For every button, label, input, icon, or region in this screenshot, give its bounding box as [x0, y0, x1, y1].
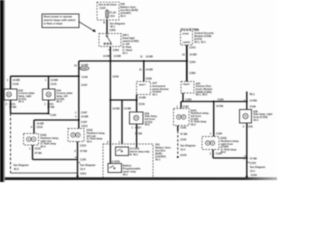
svg-text:14 BR: 14 BR — [139, 95, 146, 99]
wire inside BJB — [110, 144, 136, 164]
svg-text:See Diagram: See Diagram — [250, 165, 266, 169]
svg-text:C280: C280 — [185, 97, 192, 101]
svg-text:C140: C140 — [82, 75, 89, 79]
wire horizontal to license lamps — [11, 75, 79, 77]
svg-text:14 BR: 14 BR — [51, 78, 58, 82]
label SW-1 text — [122, 33, 139, 55]
svg-text:14 BN: 14 BN — [250, 98, 257, 102]
wire below E342 to ground chain — [210, 150, 247, 159]
wire below E341 ground chain — [177, 126, 197, 159]
label F08 BJB text — [120, 2, 138, 18]
svg-text:B: B — [103, 20, 105, 24]
wire license right drop — [7, 76, 20, 89]
svg-text:C155: C155 — [250, 161, 257, 165]
svg-text:C216: C216 — [139, 102, 146, 106]
svg-text:13-4: 13-4 — [180, 147, 186, 151]
wire ground chain center — [74, 142, 96, 177]
svg-text:14 BR: 14 BR — [124, 106, 131, 110]
fuse box F08 battery junction box (dashed) — [97, 2, 119, 20]
svg-text:14 BR: 14 BR — [146, 67, 153, 71]
wire GEM out / front lamp feed — [181, 93, 248, 109]
wire branch to BJB relay — [119, 100, 132, 144]
module A47 (dashed) — [137, 81, 169, 96]
wire branch to left rear lamp — [31, 120, 79, 134]
svg-text:14 BR: 14 BR — [13, 78, 20, 82]
svg-text:See Diagram: See Diagram — [13, 163, 29, 167]
svg-text:40-1: 40-1 — [122, 51, 128, 55]
headlight switch SW-1 (dashed) — [99, 34, 121, 47]
svg-text:C210: C210 — [80, 143, 87, 147]
svg-text:13-4: 13-4 — [80, 167, 86, 171]
svg-text:C140: C140 — [13, 82, 20, 86]
svg-text:40-1: 40-1 — [152, 92, 158, 96]
svg-text:40-2: 40-2 — [87, 139, 93, 143]
svg-text:14 BR: 14 BR — [189, 53, 196, 57]
lamp E38 side lamp right front — [240, 109, 273, 123]
lamp E34 license plate left — [43, 88, 74, 103]
svg-text:C184: C184 — [216, 132, 223, 136]
node branch y100 — [109, 99, 137, 101]
svg-text:C210: C210 — [35, 147, 42, 151]
wire license ground tie — [11, 113, 57, 118]
wire below E34 — [44, 100, 55, 114]
svg-text:C182: C182 — [180, 126, 187, 130]
svg-text:C125: C125 — [99, 6, 106, 10]
svg-text:C447: C447 — [81, 111, 88, 115]
border bar bottom — [5, 177, 277, 180]
svg-text:57 BK: 57 BK — [180, 132, 187, 136]
BJB lower box (dashed) — [103, 144, 153, 179]
LCM module A18 (dashed) — [181, 27, 215, 45]
node junction license feed — [78, 75, 88, 87]
svg-text:57 BK: 57 BK — [135, 131, 142, 135]
svg-text:C182: C182 — [183, 104, 190, 108]
svg-text:See Diagram: See Diagram — [180, 143, 196, 147]
svg-text:40-1: 40-1 — [110, 24, 116, 28]
svg-text:14 BR: 14 BR — [103, 54, 110, 58]
svg-text:C240: C240 — [113, 74, 120, 78]
wire below E36 to BJB — [132, 124, 143, 144]
svg-text:B(+): B(+) — [250, 92, 255, 96]
svg-text:40-4: 40-4 — [120, 14, 126, 18]
svg-text:40-2: 40-2 — [145, 123, 151, 127]
svg-text:VPWR: VPWR — [182, 34, 189, 36]
svg-text:14 BR: 14 BR — [114, 54, 121, 58]
wire fuse to switch — [103, 20, 126, 34]
svg-text:C156: C156 — [250, 105, 257, 109]
lamp E342 park/turn right front (dashed) — [202, 136, 239, 154]
svg-text:C115: C115 — [135, 126, 142, 130]
svg-text:See Diagram: See Diagram — [80, 163, 96, 167]
svg-text:14 BR: 14 BR — [112, 106, 119, 110]
svg-text:40-1, 40-2: 40-1, 40-2 — [196, 93, 208, 97]
lamp E33 license plate right — [4, 88, 35, 103]
svg-text:C262: C262 — [113, 48, 120, 52]
svg-text:Direct power to operate: Direct power to operate — [44, 15, 73, 19]
svg-text:VBATT: VBATT — [139, 83, 147, 86]
svg-text:40-4: 40-4 — [56, 100, 62, 104]
wire right front lamp feed — [210, 102, 224, 137]
lamp E341 park/turn left front (dashed) — [174, 104, 210, 126]
lamp E342 park/turn left rear (dashed) — [68, 128, 105, 143]
svg-text:C210: C210 — [37, 125, 44, 129]
node junction rear lamp branch — [75, 111, 88, 128]
svg-text:40-2: 40-2 — [253, 118, 259, 122]
svg-text:C184: C184 — [216, 152, 223, 156]
note box — [42, 14, 79, 28]
wire box A to side lamp — [137, 95, 146, 113]
svg-text:C228: C228 — [146, 76, 153, 80]
svg-text:VBATT: VBATT — [183, 83, 191, 86]
svg-text:C184: C184 — [217, 97, 224, 101]
svg-text:C262: C262 — [109, 28, 116, 32]
border bar left — [0, 0, 5, 182]
lamp E36 side lamp left front — [130, 111, 158, 126]
svg-text:40-1, 43-1: 40-1, 43-1 — [194, 40, 206, 44]
lamp E343 park/turn right rear (dashed) — [24, 133, 60, 148]
svg-text:exterior lamps with switch: exterior lamps with switch — [44, 18, 76, 22]
svg-text:C156: C156 — [247, 124, 254, 128]
svg-text:40-3: 40-3 — [14, 167, 20, 171]
ground G104 — [246, 176, 248, 178]
label BJB text right — [155, 143, 171, 162]
svg-text:13-4: 13-4 — [250, 169, 256, 173]
svg-text:57 BK: 57 BK — [250, 156, 257, 160]
svg-text:14 BN: 14 BN — [216, 104, 223, 108]
svg-text:40-4: 40-4 — [18, 100, 24, 104]
svg-text:C280: C280 — [189, 71, 196, 75]
svg-text:3 C250: 3 C250 — [112, 159, 121, 163]
wire below E33 — [6, 100, 17, 114]
svg-text:G104: G104 — [180, 153, 187, 157]
wire box A feed — [139, 55, 153, 82]
svg-text:C141: C141 — [51, 82, 58, 86]
svg-text:14 BR: 14 BR — [81, 115, 88, 119]
wire ground chain right — [243, 123, 266, 177]
wire license left drop — [45, 76, 58, 89]
ground G201 — [76, 175, 78, 177]
wire switch to bus — [103, 47, 121, 62]
svg-text:C245: C245 — [81, 67, 88, 71]
wire dashed to diagram 40-3 — [11, 114, 30, 174]
svg-text:G201: G201 — [80, 172, 87, 176]
svg-text:B: 40-1: B: 40-1 — [130, 153, 139, 157]
svg-text:14 BR: 14 BR — [146, 55, 153, 59]
wire lower tie to ground — [11, 172, 78, 174]
arrow note to switch — [79, 22, 96, 32]
svg-text:C140: C140 — [50, 113, 57, 117]
fuse F1.20 15A — [106, 10, 117, 20]
bus wire — [79, 60, 188, 62]
svg-text:C447: C447 — [81, 120, 88, 124]
svg-text:14 BR: 14 BR — [81, 63, 88, 67]
svg-text:Hot at all times: Hot at all times — [99, 2, 118, 6]
svg-text:C447: C447 — [81, 83, 88, 87]
svg-text:14 C250: 14 C250 — [130, 146, 140, 150]
wire B+ stub — [244, 92, 257, 110]
svg-text:C155: C155 — [180, 137, 187, 141]
wire below E343 — [29, 145, 78, 160]
svg-text:40-1: 40-1 — [155, 158, 161, 162]
svg-text:40-1: 40-1 — [123, 172, 129, 176]
svg-text:LAMPS: LAMPS — [183, 41, 191, 44]
svg-text:in Park or Head: in Park or Head — [44, 22, 63, 26]
svg-text:C250: C250 — [189, 60, 196, 64]
svg-text:C210: C210 — [81, 124, 88, 128]
svg-text:15A: 15A — [110, 14, 115, 18]
module A20 GEM (dashed) — [181, 81, 213, 96]
svg-text:40-2: 40-2 — [40, 144, 46, 148]
svg-text:57 BK: 57 BK — [80, 149, 87, 153]
svg-text:57 BK: 57 BK — [35, 151, 42, 155]
svg-text:C155: C155 — [80, 158, 87, 162]
relay battery saver — [108, 163, 141, 176]
svg-text:40-2: 40-2 — [191, 122, 197, 126]
wire LCM down to GEM — [182, 45, 197, 82]
wire switch output down — [107, 61, 120, 144]
svg-text:14 BR: 14 BR — [37, 121, 44, 125]
svg-text:G104: G104 — [251, 173, 258, 177]
relay interior lamp — [116, 146, 151, 156]
center wire from bus down — [74, 61, 89, 129]
svg-text:C270: C270 — [189, 46, 196, 50]
